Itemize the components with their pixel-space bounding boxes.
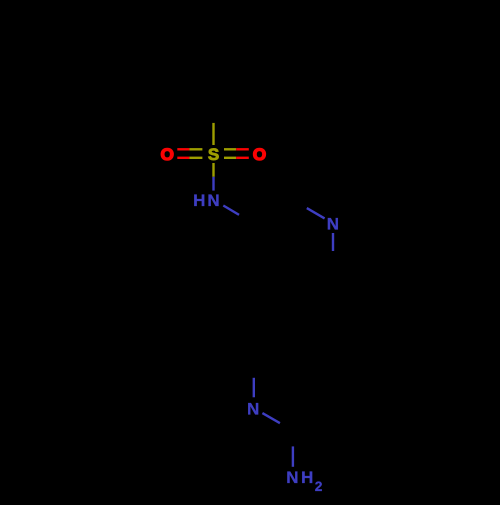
bond C5(ring1)-C4'(ring2) biaryl link (black) [292,292,295,339]
bond C5-C4 ring 1 (black) [253,269,293,292]
svg-text:H: H [301,468,313,487]
bond S=O right, line 2 (lower) [224,157,249,159]
svg-text:O: O [253,145,266,164]
bond S=O left, line 1 (upper) [177,148,202,150]
svg-text:O: O [161,145,174,164]
svg-text:2: 2 [315,479,323,494]
bond C4'-C5' ring 2 (black) [254,339,294,362]
bond C3-C2 ring 1 (black, invisible) [253,200,293,223]
svg-text:H: H [193,191,205,210]
bond S=O left, line 2 (lower) [177,157,202,159]
svg-text:N: N [247,400,259,419]
bond N1-C6 ring 1 [332,233,334,269]
bond C2=N1 ring 1, main line [293,200,324,218]
svg-text:S: S [208,145,219,164]
svg-text:N: N [286,468,298,487]
bond C4-C3 ring 1 (black) [252,223,254,269]
bond S-N(amide), S half olive, N half blue [212,163,214,191]
wire: bond S-C (propyl chain up), S half olive, C half black [212,101,214,145]
bond N(amide)-C3 of pyridine ring 1 [223,206,253,224]
bond C2'-N(amine), C half black, N half blue [292,431,294,467]
bond S=O right, line 1 (upper) [224,148,249,150]
bond C3'-C4'' ring 2 (black) [332,362,334,408]
bond C4''-C4' ring 2 (black) [294,339,334,362]
bond C6-C5 ring 1 (black) [293,269,333,292]
bond N1'=C2' ring 2, main line [262,413,293,431]
svg-text:N: N [327,215,339,234]
bond C2'-C3' ring 2 (black) [294,408,334,431]
bond C5'-N1' ring 2, C half black, N half blue [253,362,255,397]
svg-text:N: N [207,191,219,210]
